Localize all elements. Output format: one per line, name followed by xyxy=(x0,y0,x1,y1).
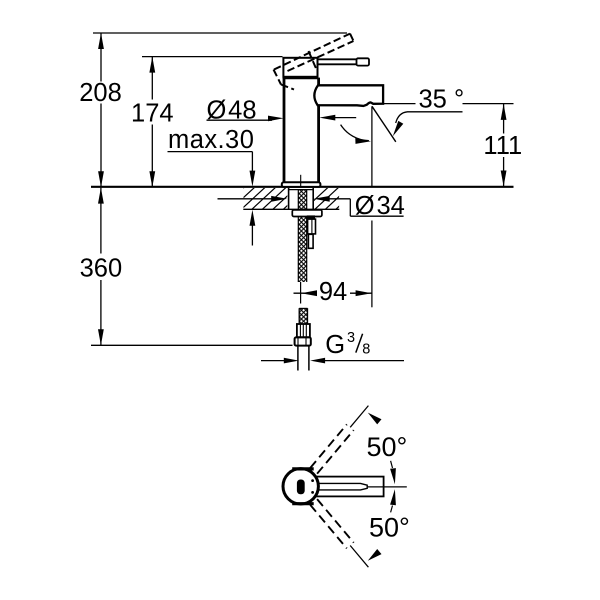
svg-text:208: 208 xyxy=(79,79,122,107)
knurled hose fitting xyxy=(297,324,310,337)
connection pipe xyxy=(297,346,299,371)
faucet body right edge lower xyxy=(317,105,320,183)
cartridge slot xyxy=(297,480,305,495)
deck bottom line xyxy=(243,208,339,210)
connector stub xyxy=(308,234,313,248)
svg-text:50°: 50° xyxy=(367,432,408,462)
raised lever dashed xyxy=(274,34,354,90)
deck hatching left xyxy=(218,187,308,212)
G 3/8 arrows xyxy=(261,360,287,362)
bottom flat xyxy=(292,502,314,505)
centerline axis xyxy=(368,486,407,488)
extension line hose end (360) xyxy=(91,344,293,346)
hex nut G3/8 xyxy=(295,337,311,345)
lower 50 extension line xyxy=(350,546,368,568)
threaded shank and braided hose upper xyxy=(298,190,306,282)
mounting deck line xyxy=(91,186,514,188)
rotation arc 35 xyxy=(341,125,369,141)
svg-text:max.30: max.30 xyxy=(168,126,254,154)
svg-text:G: G xyxy=(325,331,345,359)
cap bottom thick line xyxy=(283,76,319,79)
stream line 35 deg xyxy=(372,106,396,142)
dashed lever rotated up 50 xyxy=(310,424,354,473)
hose centerline break xyxy=(300,282,302,304)
dimension 111 line xyxy=(503,104,505,134)
lower vertex arrow xyxy=(390,489,396,505)
svg-text:3: 3 xyxy=(347,330,355,346)
mounting nut xyxy=(308,219,316,234)
base flange xyxy=(282,182,321,187)
extension line spout outlet (111) xyxy=(384,103,416,105)
svg-text:94: 94 xyxy=(319,278,347,306)
screw dot upper xyxy=(311,479,314,482)
extension line spout projection (94) xyxy=(371,106,373,186)
deck hatching right xyxy=(302,187,361,212)
svg-text:50°: 50° xyxy=(369,512,410,542)
lever rod top view xyxy=(318,483,367,490)
lever knob xyxy=(357,58,370,65)
dimension 94 line xyxy=(294,292,317,294)
max.30 leader and arrows xyxy=(168,151,253,153)
base circle xyxy=(283,469,318,504)
35 deg leader xyxy=(396,112,463,123)
svg-text:8: 8 xyxy=(362,342,370,358)
faucet body right edge upper xyxy=(317,78,320,86)
faucet body left edge xyxy=(283,78,286,183)
braided hose lower xyxy=(299,308,307,324)
svg-text:111: 111 xyxy=(483,132,522,160)
horseshoe washer xyxy=(292,210,322,217)
lever rod xyxy=(318,58,358,60)
diameter 48 leader left arrow xyxy=(207,119,273,121)
svg-text:Ø34: Ø34 xyxy=(355,192,405,220)
svg-text:360: 360 xyxy=(80,255,123,283)
dimension 34 line xyxy=(218,198,276,200)
svg-text:35 °: 35 ° xyxy=(419,86,465,114)
diameter 48 right arrow xyxy=(330,117,356,119)
screw dot lower xyxy=(311,491,314,494)
lower tangent arrow xyxy=(368,549,382,561)
dimension 174 line xyxy=(151,57,153,100)
centerline xyxy=(300,175,302,186)
collar below washer xyxy=(307,215,315,219)
extension line top of raised lever (208) xyxy=(93,32,347,34)
upper tangent arrow xyxy=(368,413,382,425)
mounting hole edges xyxy=(288,188,290,210)
dashed lever rotated down 50 xyxy=(310,499,354,548)
upper vertex arrow xyxy=(390,468,396,484)
top flat xyxy=(292,467,314,470)
upper 50 extension line xyxy=(350,406,368,428)
svg-text:174: 174 xyxy=(131,99,174,127)
dimension 360 line xyxy=(100,188,102,254)
extension line top of cap (174) xyxy=(142,56,283,58)
cartridge cap xyxy=(283,58,317,77)
lever top view outline xyxy=(312,477,384,497)
dimension 208 line xyxy=(100,33,102,82)
spout xyxy=(314,85,383,106)
